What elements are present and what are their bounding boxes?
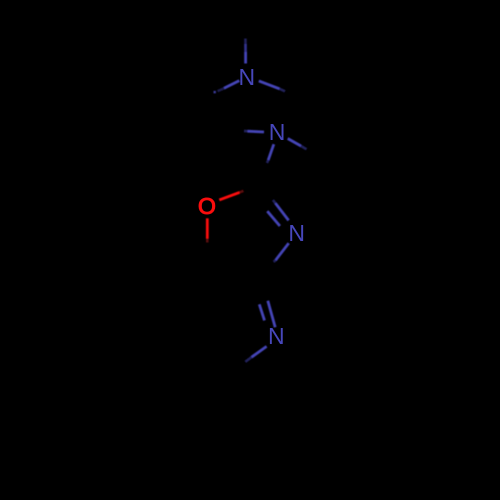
bond N1-CA tail [218, 88, 225, 91]
bond N3-C3a visible half [276, 243, 289, 260]
double bond C3a=N4 inner line [259, 304, 264, 320]
double bond C2=N3 inner line [267, 211, 280, 226]
svg-text:O: O [198, 193, 216, 219]
bond N1-CA dot [214, 91, 216, 93]
bond O1-C2 visible half (red) [219, 192, 239, 200]
bond CH3-N1 [244, 52, 247, 64]
bond N4-C5 tail [245, 357, 251, 362]
bond N1-CB visible half [259, 81, 280, 89]
bond CH3-N1 mid [244, 44, 247, 52]
double bond C2=N3 main line upper tail [273, 200, 276, 203]
svg-text:N: N [269, 119, 286, 145]
bond N3-C3a tail [274, 260, 276, 262]
bond N2-CD tail [301, 146, 307, 149]
bond N4-C5 visible half [252, 346, 267, 357]
bond CH3-N1 tail (carbon side) [244, 39, 247, 45]
double bond C2=N3 main line [275, 203, 288, 220]
double bond C3a=N4 main line [268, 301, 275, 328]
bond N1-CA visible half [224, 81, 239, 89]
bond O1-C7a visible half (red) [206, 218, 209, 238]
bond N2-CD visible half [288, 139, 301, 147]
svg-text:N: N [238, 64, 255, 90]
bond N2-CC visible half [248, 130, 265, 134]
svg-text:N: N [268, 323, 285, 349]
bond O1-C7a tail [206, 239, 209, 243]
bond N2-C2 visible half [268, 144, 274, 160]
bond N2-C2 tail [267, 160, 268, 163]
bond N2-CC tail [244, 130, 248, 133]
bond O1-C2 tail [240, 191, 244, 193]
bond N1-CB tail [280, 89, 286, 92]
svg-text:N: N [288, 220, 305, 246]
